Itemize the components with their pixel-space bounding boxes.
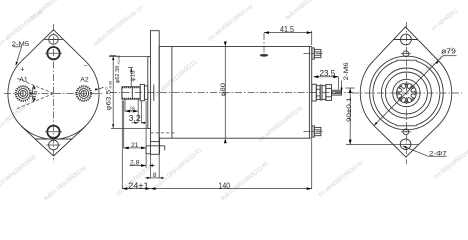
shaft collar ring 2 xyxy=(144,86,147,99)
left view bottom ear xyxy=(21,126,86,156)
left view bottom ear hole xyxy=(47,140,61,150)
svg-text:+: + xyxy=(21,67,25,74)
right view bottom ear hole xyxy=(400,139,411,150)
3,2 dimension xyxy=(129,101,147,124)
flange bottom ear boss xyxy=(146,138,165,154)
svg-text:A1: A1 xyxy=(19,76,28,83)
2-M6 label xyxy=(341,62,350,91)
hidden line bottom left xyxy=(150,132,174,134)
left view top ear chord xyxy=(44,38,62,40)
right view top ear xyxy=(374,27,438,61)
body end cap line xyxy=(311,47,313,139)
left view top M5 hole (bold) xyxy=(45,47,62,59)
right view bottom ear xyxy=(374,126,438,158)
terminal A2 xyxy=(77,86,92,101)
left view vertical centerline xyxy=(53,24,55,162)
left view horizontal centerline xyxy=(4,93,103,95)
140 dimension xyxy=(151,139,312,190)
svg-text:-0.08: -0.08 xyxy=(109,81,113,90)
svg-text:3,2: 3,2 xyxy=(129,113,141,123)
21 dimension xyxy=(124,101,146,168)
bottom right screw xyxy=(304,126,323,137)
motor body xyxy=(159,47,309,139)
svg-text:ø79: ø79 xyxy=(441,47,456,56)
left view top ear hole xyxy=(47,35,61,45)
svg-text:21: 21 xyxy=(131,142,139,149)
left view bottom ear chord xyxy=(35,138,73,140)
svg-text:140: 140 xyxy=(219,181,231,190)
concentric ring r21 xyxy=(385,72,427,114)
45 degree dashed lines xyxy=(16,78,53,109)
svg-text:2-Φ7: 2-Φ7 xyxy=(429,151,447,158)
middle view centerline xyxy=(110,92,353,94)
16 dimension xyxy=(125,100,138,123)
45 degree arc and text xyxy=(30,85,41,102)
concentric ring r25 xyxy=(381,68,431,118)
svg-text:−: − xyxy=(84,63,88,70)
hub circle r13.7 xyxy=(393,79,420,106)
top right screw xyxy=(304,48,323,59)
right view bottom M6 hole xyxy=(401,129,411,135)
svg-text:2-M6: 2-M6 xyxy=(343,62,350,81)
left view bottom M5 hole (bold) xyxy=(45,126,62,138)
right view top M6 hole xyxy=(401,51,411,57)
dia 80 dimension xyxy=(220,42,227,144)
svg-text:φ62.38: φ62.38 xyxy=(115,66,121,84)
shaft xyxy=(122,87,140,99)
right view top ear hole xyxy=(401,34,412,45)
svg-text:41.5: 41.5 xyxy=(280,25,294,34)
left view top ear xyxy=(22,30,86,61)
svg-text:φ80: φ80 xyxy=(220,83,227,97)
notched ring r33.5 xyxy=(373,60,440,126)
90+-0.1 dimension xyxy=(346,88,420,145)
terminal stud side view xyxy=(312,84,342,101)
2-dia7 label xyxy=(402,145,446,158)
right view flange circle arcs xyxy=(360,61,452,126)
dia 63.5 dimension (left view) xyxy=(95,81,113,111)
splined bore xyxy=(397,83,417,103)
shaft diameter dims (vertical texts) xyxy=(110,55,148,128)
svg-text:90±0.1: 90±0.1 xyxy=(346,97,353,122)
left view flange outline circle xyxy=(8,61,99,139)
vent mark on body xyxy=(260,33,269,59)
flange plate xyxy=(151,31,160,155)
41.5 dimension xyxy=(264,25,312,45)
svg-text:2,8: 2,8 xyxy=(130,160,140,167)
svg-text:24±1: 24±1 xyxy=(128,181,149,190)
right view top ear chord xyxy=(394,39,418,41)
shaft spline serration xyxy=(122,87,140,98)
svg-text:23,5: 23,5 xyxy=(320,69,336,78)
24+-1 dimension xyxy=(122,101,150,191)
right view centerlines xyxy=(405,22,407,164)
shaft collar ring 1 xyxy=(140,84,144,100)
8 dimension xyxy=(145,155,164,179)
svg-text:A2: A2 xyxy=(80,76,89,83)
flange spigot xyxy=(109,57,154,129)
terminal A1 xyxy=(16,86,31,101)
dia 79 dimension xyxy=(373,47,456,126)
2-M5 label and leader xyxy=(12,41,30,66)
2,8 dimension xyxy=(130,160,155,167)
svg-text:+0.02: +0.02 xyxy=(117,55,121,65)
bracket joint line xyxy=(171,47,173,139)
svg-text:8: 8 xyxy=(153,172,157,179)
23.5 dimension xyxy=(313,69,338,90)
concentric ring r36.8 xyxy=(370,56,444,130)
